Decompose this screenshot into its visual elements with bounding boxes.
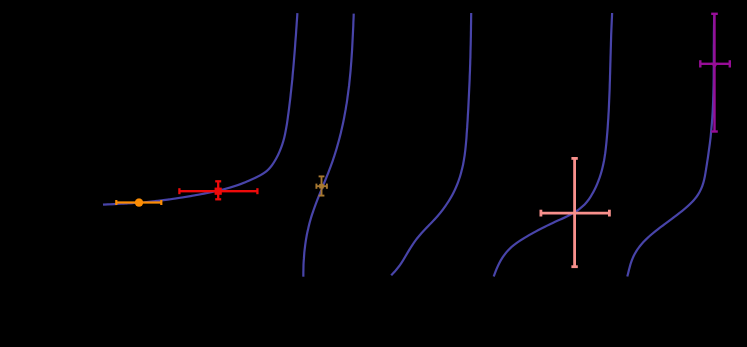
curve 4 (fourth model curve through salmon point)	[494, 13, 612, 277]
red square marker	[215, 188, 222, 195]
orange data point: horizontal error bar	[116, 200, 161, 205]
orange circle marker	[135, 198, 143, 206]
purple triangle-down marker	[711, 63, 718, 69]
salmon data point: large error bars	[541, 158, 610, 266]
curve 5 (rightmost model curve through purple point)	[627, 13, 714, 277]
curve 1 (leftmost model curve through orange and red points)	[103, 13, 297, 205]
bronze data point: error bars	[316, 176, 327, 195]
red data point: error bars	[179, 181, 257, 199]
curve 2 (second model curve through bronze point)	[303, 14, 353, 277]
curve 3 (third model curve)	[391, 13, 471, 275]
purple data point: large error bars	[700, 14, 730, 132]
bronze square marker	[319, 184, 324, 189]
